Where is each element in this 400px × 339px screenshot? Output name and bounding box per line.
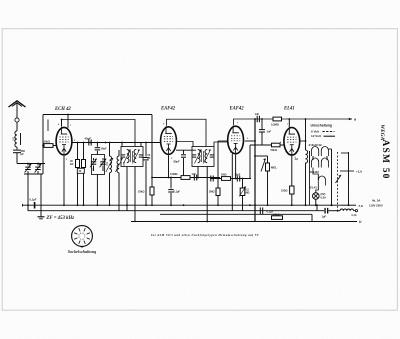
svg-text:ZF = 453 kHz: ZF = 453 kHz: [46, 216, 75, 221]
svg-text:kΩ: kΩ: [70, 163, 73, 166]
svg-text:0,3MΩ: 0,3MΩ: [271, 122, 279, 126]
svg-text:500: 500: [105, 162, 108, 167]
svg-text:a: a: [354, 118, 356, 122]
svg-text:6 Volt: 6 Volt: [311, 130, 319, 134]
svg-text:EL41: EL41: [283, 107, 295, 112]
svg-text:EAF42: EAF42: [229, 107, 245, 112]
svg-text:MΩ: MΩ: [246, 192, 250, 195]
svg-text:MEL: MEL: [271, 166, 277, 170]
svg-text:0,5MΩ: 0,5MΩ: [170, 173, 178, 176]
svg-text:0,1µF: 0,1µF: [174, 191, 181, 194]
svg-text:1nF: 1nF: [255, 112, 260, 116]
svg-text:50pF: 50pF: [101, 148, 107, 151]
svg-text:0,3A: 0,3A: [321, 196, 327, 200]
svg-text:40pF: 40pF: [85, 137, 92, 141]
svg-text:bei ASM 50/3 und allen Nachfol: bei ASM 50/3 und allen Nachfolgetypen He…: [151, 233, 260, 237]
svg-text:ECH42: ECH42: [310, 170, 320, 174]
svg-text:-7,8: -7,8: [358, 204, 364, 208]
svg-text:+1,9: +1,9: [356, 170, 362, 174]
svg-text:pF: pF: [148, 157, 152, 160]
svg-text:1nF: 1nF: [267, 129, 272, 133]
svg-text:150Ω: 150Ω: [281, 189, 287, 193]
svg-text:0,1A: 0,1A: [352, 214, 357, 217]
svg-text:EL41: EL41: [310, 186, 317, 190]
svg-text:500: 500: [11, 137, 14, 142]
svg-text:1nF: 1nF: [192, 173, 197, 176]
svg-text:50kΩ: 50kΩ: [271, 148, 277, 152]
svg-text:(6V): (6V): [321, 192, 326, 196]
svg-text:Umschaltung: Umschaltung: [311, 123, 332, 127]
svg-text:WEGA: WEGA: [379, 125, 384, 141]
svg-text:12 Volt: 12 Volt: [311, 134, 321, 138]
svg-text:80pF: 80pF: [174, 160, 180, 164]
svg-text:pF: pF: [21, 152, 25, 156]
svg-text:25kΩ: 25kΩ: [138, 190, 144, 194]
svg-text:15kΩ: 15kΩ: [43, 139, 51, 143]
svg-text:1MΩ: 1MΩ: [221, 174, 226, 177]
svg-text:1µF: 1µF: [322, 214, 327, 218]
svg-text:ECH 42: ECH 42: [54, 107, 71, 112]
svg-text:4h, 5A: 4h, 5A: [372, 199, 380, 203]
svg-text:Sockelschaltung: Sockelschaltung: [68, 249, 96, 254]
svg-text:ASM 50: ASM 50: [380, 139, 390, 179]
svg-text:EAF42: EAF42: [160, 107, 176, 112]
svg-text:0,1µF: 0,1µF: [30, 198, 37, 202]
svg-text:2MΩ: 2MΩ: [209, 191, 214, 194]
svg-text:10nF: 10nF: [235, 174, 241, 177]
svg-text:500: 500: [122, 162, 125, 167]
svg-text:110V 220V: 110V 220V: [369, 203, 383, 207]
